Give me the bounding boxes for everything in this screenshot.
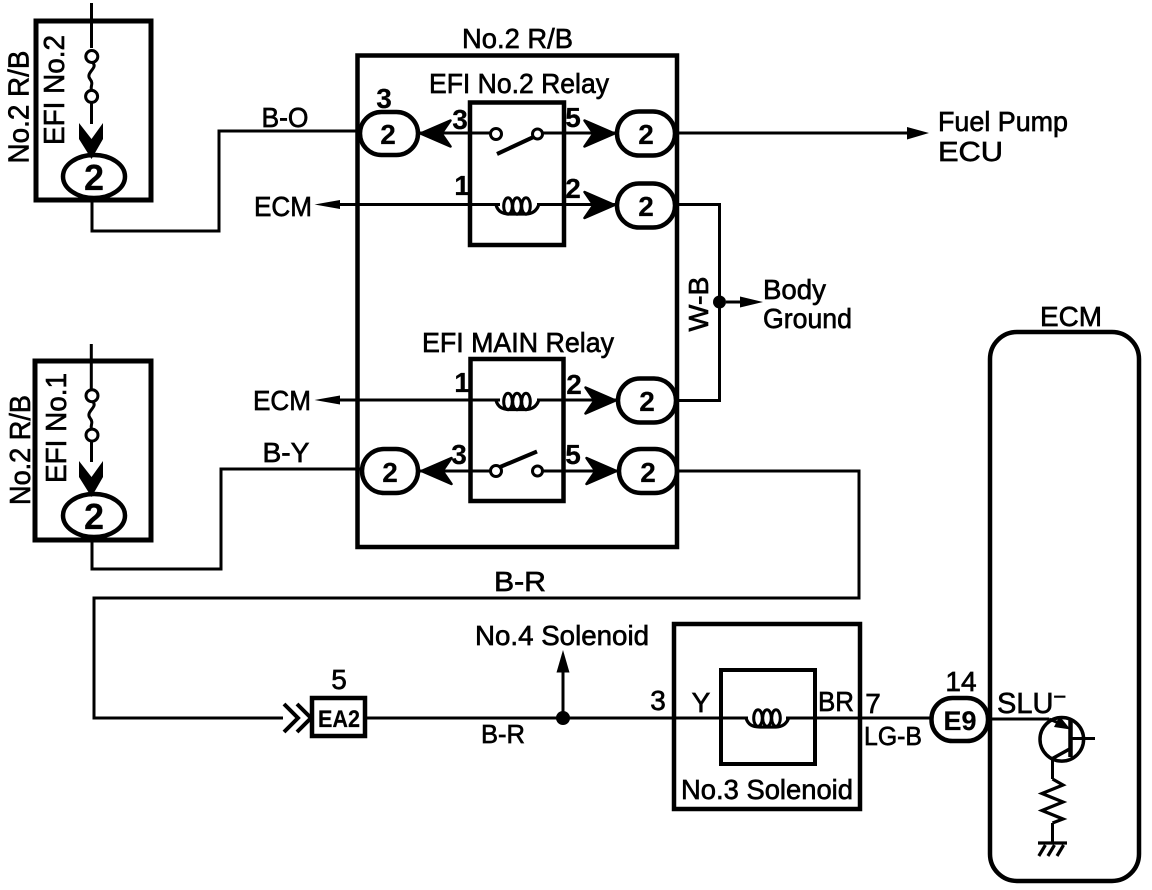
relay2 coil L [496,393,539,410]
solenoid box No.3 Solenoid (outer) [674,624,860,809]
label No.3 Solenoid [681,774,853,805]
svg-text:3: 3 [451,439,467,470]
junction block box EFI No.1 fuse (No.2 R/B) [35,361,151,540]
label Y (solenoid wire color) [692,687,711,718]
svg-text:ECM: ECM [1040,301,1102,332]
pin label 7 [865,688,881,719]
pin label 5 (relay1 switch) [565,102,581,133]
svg-text:EFI No.2 Relay: EFI No.2 Relay [429,68,609,99]
pin label 3 (No.3 solenoid) [650,685,666,716]
connector oval 2 (relay2 coil right) [618,379,676,423]
svg-text:3: 3 [650,685,666,716]
fuse EFI No.2 (circle-squiggle-circle) [86,51,98,125]
wire B-O net: fuse A to relay block [92,131,361,231]
junction dot W-B [713,296,726,309]
label EFI No.2 (rotated, inside fuse box) [39,35,71,145]
relay2 switch contact circles [491,466,543,477]
svg-text:W-B: W-B [683,277,714,332]
pin number 2 (relay2 switch right oval) [640,457,656,488]
wire relay1 coil right lead [537,203,618,206]
label B-R (lower) [481,719,525,749]
connector oval 2 (relay2 switch left) [362,449,418,493]
connector oval 2 (relay1 coil right) [617,184,675,228]
pin number 2 (relay2 coil right oval) [639,386,655,417]
label No.2 R/B (rotated, left of EFI No.2 fuse box) [4,51,36,164]
label W-B (rotated) [683,277,714,332]
svg-text:No.2 R/B: No.2 R/B [4,51,36,164]
arrowhead Body Ground [740,297,763,308]
connector oval E9 [932,698,989,741]
label E9 (connector name) [944,706,977,736]
pin label 2 (relay2 coil) [566,369,582,400]
svg-text:2: 2 [639,386,655,417]
junction block box EFI No.2 fuse (No.2 R/B) [36,21,151,200]
label B-O [262,102,309,133]
svg-text:EFI No.1: EFI No.1 [41,373,73,483]
svg-text:14: 14 [945,666,976,697]
pin number 2 (fuse A connector) [84,157,104,198]
svg-text:3: 3 [452,104,468,135]
pin label 1 (relay2 coil) [454,367,470,398]
svg-text:5: 5 [565,102,581,133]
wire B-R net (relay2 pin5 to EA2) [94,471,859,718]
wire relay1 switch right lead [543,132,618,135]
svg-text:No.3 Solenoid: No.3 Solenoid [681,774,853,805]
connector chevrons EA2 (>>) [284,704,311,732]
connector oval 2 (fuse B) [63,494,125,537]
wire W-B net [675,205,720,401]
wire resistor to ground [1051,823,1054,843]
svg-text:1: 1 [454,367,470,398]
svg-text:2: 2 [638,191,654,222]
pin label 5 (EA2) [331,664,347,695]
fuse EFI No.1 (circle-squiggle-circle) [86,390,98,462]
relay1 switch blade [497,137,534,154]
black chevron arrow into connector (fuse A) [79,123,103,159]
svg-text:ECM: ECM [254,191,312,222]
ground symbol [1038,843,1067,856]
connector oval 2 (relay2 switch right) [619,449,677,493]
relay block box No.2 R/B [358,56,678,548]
svg-text:EFI MAIN Relay: EFI MAIN Relay [422,327,614,358]
wire No.4 Solenoid branch [562,668,565,712]
arrowhead No.4 Solenoid [557,650,570,673]
junction dot No.4 solenoid branch [556,711,570,725]
svg-text:5: 5 [565,439,581,470]
svg-text:ECU: ECU [938,136,1003,167]
svg-text:B-Y: B-Y [263,437,310,468]
connector oval 2 (relay1 switch left) [360,112,418,155]
label ECM (relay1) [254,191,312,222]
relay2 switch blade [500,452,537,468]
connector box EA2 [312,698,365,736]
svg-text:5: 5 [331,664,347,695]
svg-text:BR: BR [818,686,854,717]
svg-text:2: 2 [84,496,104,537]
wire to Fuel Pump ECU [675,132,911,135]
wire relay2 switch left lead [418,470,491,473]
arrowhead Fuel Pump ECU [907,127,929,140]
svg-text:B-R: B-R [494,566,546,597]
wire B-Y net: fuse B to relay block [92,469,363,569]
wire B-R net (EA2 to No.3 Solenoid) [366,717,748,720]
svg-text:2: 2 [640,457,656,488]
pin number 2 (relay1 coil right oval) [638,191,654,222]
wire fuse A supply (top lead) [90,3,93,48]
svg-text:LG-B: LG-B [864,721,922,751]
wire relay2 switch right lead [543,470,620,473]
pin label 2 (relay1 coil) [565,173,581,204]
pin number 2 (relay2 switch left oval) [382,457,398,488]
black chevron arrow right (relay2 pin 5) [587,458,617,484]
pin number 2 (relay1 switch right oval) [638,119,654,150]
label No.4 Solenoid [475,620,649,651]
wire fuse B supply (top lead) [90,344,93,390]
label No.2 R/B (relay block title) [462,23,573,54]
svg-text:1: 1 [454,170,470,201]
resistor R1 [1042,779,1063,823]
ECM box [990,332,1139,881]
solenoid inner box [721,670,815,764]
label EFI No.2 Relay [429,68,609,99]
svg-text:3: 3 [376,83,392,114]
svg-text:7: 7 [865,688,881,719]
label LG-B [864,721,922,751]
connector oval 2 (relay1 switch right) [617,112,675,156]
label No.2 R/B (rotated, left of EFI No.1 fuse box) [5,395,37,505]
svg-text:2: 2 [566,369,582,400]
wire ECM lead (relay1 coil pin 1) [338,203,500,206]
svg-text:Y: Y [692,687,711,718]
svg-text:No.2 R/B: No.2 R/B [5,395,37,505]
label Body Ground [763,274,852,334]
svg-text:ECM: ECM [253,385,311,416]
svg-text:Ground: Ground [763,303,852,334]
svg-text:Fuel Pump: Fuel Pump [938,106,1068,137]
wire relay2 coil right lead [537,399,620,402]
svg-text:E9: E9 [944,706,977,736]
connector oval 2 (fuse A) [63,155,125,198]
black chevron arrow right (relay2 pin 2) [586,388,616,414]
label EA2 [318,706,360,733]
wire Body Ground arrow [726,301,744,304]
black chevron arrow into connector (fuse B) [79,461,103,497]
pin label 5 (relay2 switch) [565,439,581,470]
black chevron arrow left (relay1 pin 3) [421,121,451,147]
svg-text:EFI No.2: EFI No.2 [39,35,71,145]
pin label 3 (relay2 switch) [451,439,467,470]
pin label 1 (relay1 coil) [454,170,470,201]
svg-text:2: 2 [382,457,398,488]
label EFI MAIN Relay [422,327,614,358]
relay U1 EFI No.2 Relay inner box [470,103,564,246]
label Fuel Pump ECU [938,106,1068,167]
svg-text:2: 2 [638,119,654,150]
relay1 switch contact circles [491,129,543,140]
relay1 coil L [496,198,539,215]
svg-text:B-R: B-R [481,719,525,749]
arrowhead ECM (relay2) [315,396,341,405]
relay U2 EFI MAIN Relay inner box [471,359,564,501]
svg-text:No.4 Solenoid: No.4 Solenoid [475,620,649,651]
pin label 3 (relay1 switch) [452,104,468,135]
black chevron arrow right (relay1 pin 2) [585,192,615,218]
label B-Y [263,437,310,468]
arrowhead ECM (relay1) [315,200,341,209]
svg-text:2: 2 [84,157,104,198]
label BR (solenoid wire color) [818,686,854,717]
black chevron arrow left (relay2 pin 3) [422,458,452,484]
pin label 3 (above left oval, relay 1) [376,83,392,114]
svg-text:2: 2 [565,173,581,204]
svg-text:B-O: B-O [262,102,309,133]
transistor Q1 [1040,718,1095,762]
pin number 2 (relay1 switch left oval) [380,119,396,150]
wire LG-B net (solenoid to E9) [786,717,932,720]
pin label 14 (above E9) [945,666,976,697]
label ECM (title) [1040,301,1102,332]
label EFI No.1 (rotated, inside fuse box) [41,373,73,483]
svg-text:EA2: EA2 [318,706,360,733]
svg-text:No.2 R/B: No.2 R/B [462,23,573,54]
wire relay1 switch left lead [418,132,491,135]
label B-R (upper) [494,566,546,597]
solenoid coil L3 [746,710,789,727]
svg-text:2: 2 [380,119,396,150]
black chevron arrow right (relay1 pin 5) [585,121,615,147]
wire ECM lead (relay2 coil pin 1) [338,399,500,402]
svg-text:Body: Body [763,274,826,305]
transistor emitter arrowhead [1054,716,1071,730]
label ECM (relay2) [253,385,311,416]
pin number 2 (fuse B connector) [84,496,104,537]
label SLU- [997,684,1066,720]
wire E9 to transistor [988,718,1049,721]
wire transistor to resistor [1051,759,1054,780]
